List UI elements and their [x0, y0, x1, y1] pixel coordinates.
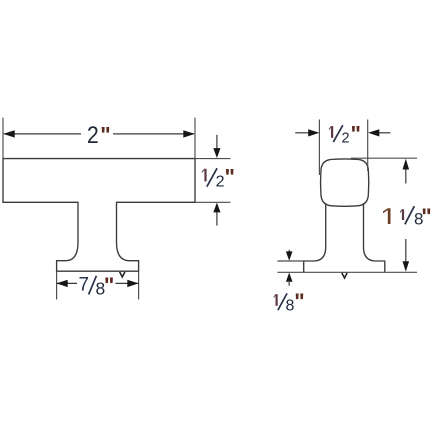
- dim label half inch side: [329, 122, 361, 147]
- dim one-eighth extension line top left: [277, 260, 303, 262]
- dim label one-eighth inch: [274, 289, 305, 314]
- dim one-eighth down arrow: [288, 250, 290, 252]
- dim half-inch side extension line left: [318, 120, 320, 176]
- dim one-and-eighth down arrow: [405, 239, 407, 262]
- dim one-eighth up arrow: [288, 282, 290, 286]
- front view base v mark: [120, 272, 125, 277]
- svg-text:": ": [421, 204, 431, 229]
- svg-text:8: 8: [286, 297, 295, 314]
- side view knob head squircle: [321, 159, 369, 206]
- dim 2in extension line right: [194, 118, 196, 159]
- svg-text:": ": [351, 122, 361, 147]
- side view base bottom long line: [277, 271, 417, 273]
- dim one-and-eighth top extension line: [351, 157, 417, 159]
- dim half-inch side right arrow: [379, 132, 391, 134]
- svg-text:": ": [100, 122, 110, 147]
- dim 2in extension line left: [2, 118, 4, 159]
- dim label 2 inch: [87, 122, 111, 149]
- dim half-inch front extension line bottom: [195, 201, 231, 203]
- dim 2in dimension line left segment: [4, 133, 81, 135]
- dim label one and one-eighth inch: [383, 204, 432, 229]
- dim 2in arrowhead right: [183, 130, 195, 137]
- dim seven-eighths line right segment: [116, 282, 139, 284]
- dim seven-eighths arrowhead right: [127, 280, 138, 287]
- side view stem and base outline right: [364, 203, 385, 272]
- dim 2in arrowhead left: [3, 130, 15, 137]
- dim half-inch side left arrow: [295, 132, 309, 134]
- dim seven-eighths line left segment: [57, 282, 77, 284]
- dim half-inch front extension line top: [195, 158, 231, 160]
- front view knob outline: [3, 159, 195, 272]
- dim half-inch front down arrow: [216, 135, 218, 149]
- dim label half inch front: [202, 165, 235, 191]
- dim half-inch side extension line right: [367, 120, 369, 172]
- dim seven-eighths arrowhead left: [56, 280, 67, 287]
- dim seven-eighths extension line left: [56, 271, 58, 299]
- dim 2in dimension line right segment: [113, 133, 194, 135]
- svg-text:2: 2: [216, 173, 225, 190]
- svg-text:": ": [294, 289, 304, 314]
- svg-text:7: 7: [79, 274, 90, 295]
- dim label seven-eighths inch: [79, 273, 115, 299]
- dim one-and-eighth up arrow: [405, 169, 407, 184]
- dim seven-eighths extension line right: [138, 271, 140, 299]
- svg-text:": ": [225, 165, 235, 190]
- side view base v mark: [342, 273, 347, 278]
- side view stem and base outline left: [304, 203, 326, 272]
- svg-text:2: 2: [87, 122, 99, 149]
- svg-text:2: 2: [342, 130, 350, 146]
- dim half-inch front up arrow: [216, 212, 218, 226]
- svg-text:": ": [104, 273, 114, 298]
